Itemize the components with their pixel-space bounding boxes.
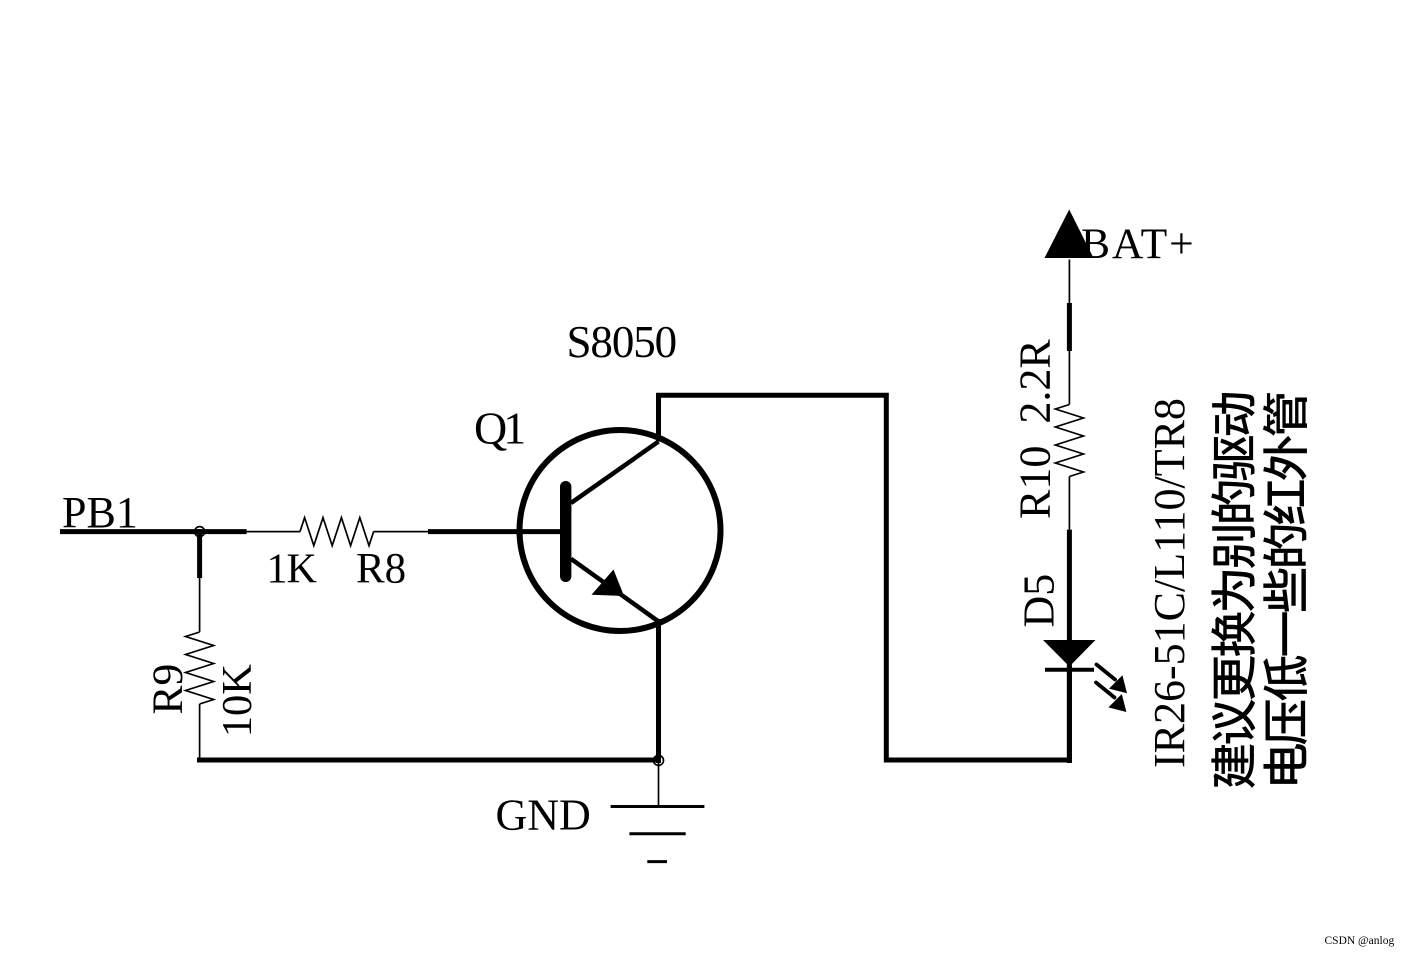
svg-text:R9: R9 [144,664,192,715]
svg-text:1K: 1K [267,547,317,593]
svg-text:R8: R8 [356,546,406,593]
svg-text:S8050: S8050 [567,317,677,367]
svg-text:R10 2.2R: R10 2.2R [1011,339,1060,519]
svg-text:CSDN @anlog: CSDN @anlog [1325,935,1395,947]
svg-text:IR26-51C/L110/TR8: IR26-51C/L110/TR8 [1145,398,1194,768]
svg-text:BAT+: BAT+ [1081,220,1196,268]
svg-text:10K: 10K [214,664,261,738]
svg-text:PB1: PB1 [62,488,138,537]
svg-text:Q1: Q1 [474,402,524,453]
svg-text:D5: D5 [1014,574,1063,628]
svg-text:GND: GND [496,791,591,840]
